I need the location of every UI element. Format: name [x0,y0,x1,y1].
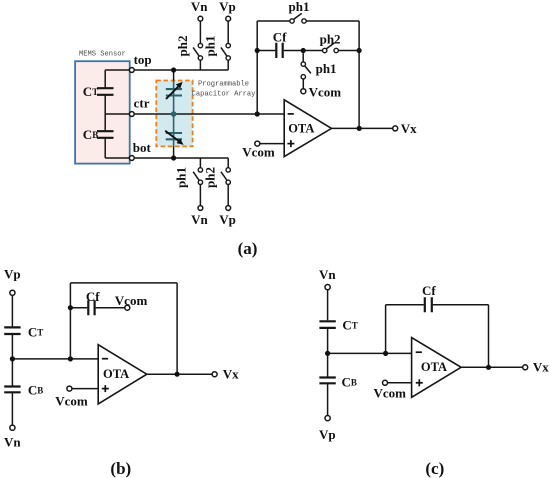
terminal Vx (c) [523,365,528,370]
terminal Vx (a) [393,126,398,131]
svg-text:Vcom: Vcom [242,145,275,160]
terminal Vcom (b + input) [67,386,72,391]
wire MEMS internal vertical [104,70,106,158]
wire Cf row [257,50,359,52]
wire input line (b) [12,358,98,360]
node Cf-ph1 junction [301,48,306,53]
svg-text:CB: CB [342,374,357,389]
svg-text:Vp: Vp [319,427,336,442]
svg-text:Vcom: Vcom [374,385,407,400]
wire bot line [105,157,228,159]
svg-text:ph1: ph1 [203,36,218,57]
svg-text:Vx: Vx [401,121,417,136]
terminal Vn (b) [10,425,15,430]
wire CT to CB (c) [327,329,329,377]
node output junction [357,126,362,131]
terminal Vp top [226,16,231,21]
svg-text:Vn: Vn [191,212,208,227]
node input left (c) [325,351,330,356]
wire Cf branch (b) [70,307,124,309]
wire feedback top (b) [70,282,177,284]
capacitor Cf (c) [425,297,432,312]
svg-text:Cf: Cf [273,30,287,45]
svg-text:Vp: Vp [219,212,236,227]
node top terminal [129,68,134,73]
switch ph1 (top right) [226,43,230,47]
svg-text:Vcom: Vcom [55,394,88,409]
wire output (b) [147,373,212,375]
wire feedback vertical (b) [69,283,71,359]
svg-text:top: top [134,52,152,67]
svg-text:Capacitor Array: Capacitor Array [192,91,257,99]
svg-text:Cf: Cf [86,289,100,304]
svg-text:CB: CB [83,127,98,142]
svg-text:Vn: Vn [319,267,336,282]
capacitor CT (c) [319,321,335,328]
svg-text:(b): (b) [110,459,131,478]
svg-text:Vx: Vx [223,367,239,382]
wire ctr line [105,113,284,115]
svg-text:ph1: ph1 [174,167,189,188]
wire bot stub ph2 [227,158,229,168]
svg-text:Programmable: Programmable [198,80,249,88]
node input feedback (b) [68,356,73,361]
terminal Vcom (+ input) [255,141,260,146]
variable capacitor CA2 [166,133,182,139]
wire right feedback vertical [358,21,360,128]
capacitor CB [97,131,114,138]
svg-text:OTA: OTA [288,121,314,135]
capacitor Cf [276,43,282,58]
node output (c) [486,365,491,370]
wire Vp to switch [227,21,229,43]
op-amp OTA (a) [284,100,331,157]
wire to Vcom terminal [302,79,304,89]
wire feedback top (c) [386,304,489,306]
op-amp OTA (b) [98,345,147,404]
node bot-array junction [171,155,176,160]
wire top line [105,69,228,71]
svg-text:ph1: ph1 [316,61,337,76]
capacitor CB (b) [4,387,20,393]
op-amp OTA (c) [412,338,462,398]
wire feedback right vertical (b) [176,283,178,374]
svg-text:(a): (a) [238,239,258,258]
wire output [332,127,393,129]
variable capacitor array vertical line [173,70,175,158]
wire CT to CB [11,335,13,386]
node bot terminal [129,156,134,161]
svg-text:Vp: Vp [219,0,236,14]
node Cf branch (b) [68,305,73,310]
node array center junction [171,111,177,117]
svg-text:CB: CB [28,382,43,397]
svg-text:(c): (c) [425,459,444,478]
arrow of CA1 [166,86,179,99]
switch ph2 (top left) [198,43,202,47]
arrow of CA2 [165,131,179,141]
svg-text:CT: CT [342,317,357,332]
svg-text:Vcom: Vcom [115,293,148,308]
node right feedback junction [357,48,362,53]
variable capacitor CA1 [166,89,182,95]
svg-text:Vx: Vx [533,360,549,375]
wire Vp down [11,295,13,326]
terminal Vn bottom [198,206,203,211]
wire Vn down [327,290,329,321]
switch ph1 (to Vcom) [301,62,305,66]
node input feedback (c) [383,351,388,356]
terminal Vcom (reset) [301,89,306,94]
wire + input (c) [388,382,412,384]
wire output (c) [461,366,523,368]
wire bot stub ph1 [199,158,201,168]
svg-text:Vn: Vn [191,0,208,14]
wire left feedback vertical [256,21,258,114]
node output (b) [175,372,180,377]
wire switch to top line [227,60,229,70]
switch ph1 (bottom left) [198,168,202,172]
svg-text:ph1: ph1 [289,0,310,14]
wire + input from Vcom [260,143,284,145]
capacitor Cf (b) [88,300,94,315]
switch ph1 (feedback top) [290,19,294,23]
capacitor CB (c) [319,378,335,384]
wire CB to Vp (c) [327,384,329,415]
wire feedback vertical (c) [385,305,387,354]
wire switch to Vn bottom [199,185,201,206]
wire switch to Vp bottom [227,185,229,206]
node feedback-input junction [255,111,260,116]
svg-text:OTA: OTA [103,367,129,381]
wire CB to Vn [11,393,13,425]
wire switch to top line [199,60,201,70]
terminal Vp (c) [325,416,330,421]
svg-text:Cf: Cf [422,283,436,298]
MEMS sensor box [75,61,130,163]
switch ph2 (Cf row) [323,48,327,52]
programmable capacitor array box [156,81,192,147]
svg-text:Vn: Vn [4,435,21,450]
capacitor CT (b) [4,327,20,334]
node top-array junction [171,67,176,72]
node input left (b) [10,356,15,361]
wire feedback right vertical (c) [488,305,490,368]
wire Vn to switch [199,21,201,43]
svg-text:ph2: ph2 [320,31,341,46]
switch ph2 (bottom right) [226,168,230,172]
svg-text:OTA: OTA [421,360,447,374]
terminal Vn top [198,16,203,21]
terminal Vcom (b reset) [125,305,130,310]
wire top feedback [257,20,359,22]
wire input line (c) [328,352,412,354]
node ctr terminal [129,112,134,117]
capacitor CT [97,88,114,95]
wire + input (b) [72,388,98,390]
wire ph1-Vcom branch [302,53,304,62]
terminal Vcom (c) [383,380,388,385]
svg-text:ph2: ph2 [175,36,190,57]
svg-text:Vp: Vp [4,267,21,282]
svg-text:CT: CT [28,324,43,339]
svg-text:ctr: ctr [134,96,150,111]
svg-text:Vcom: Vcom [309,85,342,100]
terminal Vp bottom [226,206,231,211]
svg-text:CT: CT [83,84,98,99]
svg-text:ph2: ph2 [202,167,217,188]
svg-text:bot: bot [133,140,152,155]
node feedback-Cf junction [255,48,260,53]
svg-text:MEMS Sensor: MEMS Sensor [79,51,126,59]
terminal Vx (b) [212,372,217,377]
